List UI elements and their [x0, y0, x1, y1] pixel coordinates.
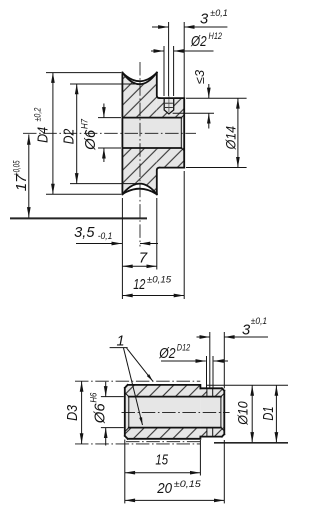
- svg-text:D12: D12: [177, 342, 190, 352]
- dowel hole slot bottom: [207, 428, 213, 437]
- pulley disc lower section (hatched): [122, 148, 156, 194]
- dim 12 ±0,15: [122, 171, 184, 299]
- svg-text:D3: D3: [65, 405, 81, 421]
- svg-text:±0,15: ±0,15: [174, 479, 202, 489]
- dim Ø2 H12: [151, 31, 222, 96]
- svg-text:3: 3: [200, 12, 208, 28]
- right extension lines bottom view: [206, 384, 288, 386]
- bottom groove crescent: [122, 184, 156, 195]
- collar outline: [200, 388, 224, 436]
- svg-text:±0,1: ±0,1: [210, 8, 228, 18]
- svg-text:12: 12: [133, 277, 145, 293]
- svg-text:Ø2: Ø2: [158, 346, 175, 362]
- dim 3 ±0,1 (top, hole position): [152, 8, 228, 97]
- dim D1: [261, 385, 277, 442]
- svg-text:±0,1: ±0,1: [251, 316, 267, 326]
- svg-text:≤3: ≤3: [193, 70, 207, 84]
- dim ≤3 hole depth: [173, 70, 214, 129]
- svg-text:D2: D2: [62, 129, 78, 145]
- dowel hole slot top: [207, 388, 213, 396]
- svg-text:H6: H6: [88, 393, 98, 403]
- dim Ø14: [186, 98, 247, 167]
- hub top and bottom: [160, 98, 185, 168]
- svg-text:D4: D4: [36, 127, 52, 143]
- dim D3: [65, 381, 81, 443]
- top groove crescent: [122, 73, 156, 85]
- axis centerline bottom view: [122, 412, 230, 414]
- collar fill: [200, 388, 224, 436]
- svg-text:1: 1: [117, 333, 125, 349]
- hatch bottom band main: [125, 428, 201, 439]
- svg-text:Ø6: Ø6: [83, 129, 99, 151]
- svg-text:-0,1: -0,1: [98, 231, 113, 241]
- bore band Ø6: [122, 118, 184, 148]
- dim 17 +0,05 with reference plane: [10, 135, 147, 219]
- svg-text:Ø2: Ø2: [190, 34, 206, 50]
- set pin hole Ø2 in hub: [164, 96, 174, 114]
- pulley disc upper section (hatched): [122, 73, 156, 118]
- dim 20 ±0,15: [125, 440, 225, 503]
- main cylinder outline: [125, 385, 201, 439]
- bore lines: [122, 118, 181, 148]
- hub upper section (hatched): [157, 98, 184, 118]
- left face: [121, 73, 123, 195]
- dim Ø6 H6: [88, 382, 124, 446]
- hatch top band main: [125, 385, 201, 397]
- axis centerline (horizontal): [23, 132, 196, 134]
- dim D2: [62, 84, 140, 184]
- item label 1 with leaders: [110, 333, 153, 425]
- hatch collar top band: [200, 388, 207, 396]
- bore exit chamfer at right face: [181, 115, 184, 151]
- hub lower section (hatched): [157, 148, 184, 168]
- svg-text:15: 15: [155, 453, 168, 469]
- svg-text:±0,15: ±0,15: [147, 274, 172, 284]
- svg-text:Ø10: Ø10: [235, 401, 251, 426]
- svg-text:Ø6: Ø6: [92, 402, 108, 424]
- bore exit chamfer right: [221, 393, 224, 431]
- svg-text:Ø14: Ø14: [223, 126, 239, 151]
- dim 7: [122, 198, 156, 270]
- hatch collar bottom band: [200, 428, 207, 437]
- svg-text:3: 3: [242, 322, 250, 338]
- envelope dash-dot top: [75, 380, 200, 382]
- svg-text:±0,2: ±0,2: [33, 108, 43, 122]
- hub right face: [183, 98, 185, 168]
- groove centerline (vertical): [139, 62, 141, 247]
- svg-text:D1: D1: [261, 406, 277, 420]
- disc right face segments: [157, 73, 160, 195]
- svg-text:7: 7: [139, 251, 148, 267]
- bore entry chamfer left: [125, 393, 129, 432]
- svg-text:H7: H7: [79, 118, 89, 129]
- envelope dash-dot bottom outer: [75, 443, 200, 445]
- svg-text:+0,05: +0,05: [12, 160, 22, 176]
- dim Ø2 D12 (bottom): [158, 342, 228, 388]
- dim 3,5 -0,1: [74, 198, 158, 247]
- svg-text:H12: H12: [209, 31, 223, 41]
- dim Ø10: [235, 385, 253, 442]
- svg-text:3,5: 3,5: [74, 225, 95, 241]
- dim 15: [125, 440, 201, 476]
- svg-text:20: 20: [156, 481, 172, 497]
- bore lines bottom part: [129, 397, 221, 428]
- main cylinder body fill: [125, 385, 201, 439]
- dim 3 ±0,1 (bottom): [197, 316, 269, 388]
- dim Ø6 H7: [79, 104, 121, 163]
- dim D4 ±0,2: [33, 73, 122, 195]
- envelope dash-dot bottom inner: [126, 441, 200, 443]
